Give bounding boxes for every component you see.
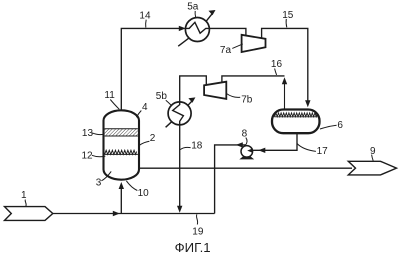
leader tick label 8: [245, 138, 247, 146]
svg-text:16: 16: [271, 59, 283, 70]
arrowhead 5a coolant out: [209, 10, 216, 15]
wire 18 exchanger 5b down to feed line: [179, 125, 181, 207]
leader tick label 7a: [232, 44, 243, 49]
arrowhead feed line right: [113, 211, 120, 216]
arrowhead 16 up: [282, 77, 287, 84]
svg-text:2: 2: [150, 133, 156, 144]
leader tick label 15: [285, 19, 288, 28]
compressor 7a: [242, 35, 266, 52]
column 2 vessel outline: [104, 110, 140, 179]
leader tick label 7b: [227, 94, 241, 98]
svg-text:14: 14: [139, 10, 151, 21]
wire 17 vessel 6 bottom to pump 8: [253, 133, 297, 150]
svg-text:6: 6: [337, 120, 343, 131]
wire product line to arrow 9: [139, 167, 352, 169]
svg-text:13: 13: [82, 128, 94, 139]
svg-text:1: 1: [21, 190, 27, 201]
arrowhead 15 into vessel 6: [305, 100, 310, 107]
vessel 6: [272, 110, 320, 134]
heat exchanger 5b: [166, 101, 193, 128]
leader tick label 19: [196, 214, 197, 224]
leader tick label 1: [25, 200, 26, 207]
arrowhead stream 18 down: [177, 206, 182, 213]
leader tick label 3: [101, 171, 111, 180]
svg-text:7a: 7a: [220, 45, 232, 56]
wire 15 compressor 7a to vessel 6: [262, 28, 308, 101]
svg-text:7b: 7b: [241, 94, 253, 105]
wire feed riser into column bottom: [120, 189, 122, 214]
leader tick label 5b: [166, 100, 172, 105]
svg-text:5a: 5a: [187, 1, 199, 12]
svg-text:17: 17: [317, 146, 329, 157]
leader tick label 14: [145, 20, 148, 28]
compressor 7b: [204, 82, 226, 99]
arrowhead into column bottom: [119, 182, 124, 189]
svg-text:8: 8: [242, 129, 248, 140]
leader tick label 4: [136, 111, 141, 118]
leader tick label 2: [139, 141, 149, 145]
pump 8: [239, 146, 254, 160]
leader tick label 5a: [194, 11, 197, 18]
svg-text:11: 11: [104, 90, 115, 101]
leader tick label 11: [110, 100, 119, 110]
arrowhead pump outlet left: [236, 142, 243, 147]
outlet arrow 9: [348, 161, 396, 175]
leader tick label 9: [372, 155, 374, 161]
arrowhead into 5a: [179, 26, 186, 31]
wire 16 vessel 6 vapor to compressor 7b: [284, 84, 286, 110]
svg-text:18: 18: [191, 141, 203, 152]
inlet arrow 1: [5, 207, 53, 221]
svg-text:ФИГ.1: ФИГ.1: [175, 240, 211, 255]
leader tick label 17: [297, 143, 316, 151]
svg-text:12: 12: [82, 150, 94, 161]
svg-text:5b: 5b: [156, 91, 168, 102]
leader tick label 16: [275, 69, 277, 75]
wire 19 pump outlet recycle: [215, 145, 246, 214]
heat exchanger 5a: [178, 13, 212, 46]
hatched bed 13 in column: [105, 129, 138, 136]
packing 12 sawtooth in column: [105, 150, 138, 154]
wire compressor 7b outlet to exchanger 5b: [180, 76, 207, 102]
svg-text:9: 9: [370, 146, 376, 157]
leader tick label 12: [92, 155, 105, 156]
svg-text:19: 19: [192, 226, 204, 237]
demister sawtooth in vessel 6: [274, 113, 317, 117]
svg-text:10: 10: [138, 188, 150, 199]
leader tick label 13: [92, 133, 104, 135]
wire 14 column top to exchanger 5a: [121, 28, 180, 110]
wire 5a to compressor 7a: [209, 28, 246, 35]
wire feed line from arrow 1: [53, 213, 215, 215]
leader tick label 6: [320, 125, 337, 129]
arrowhead 5b coolant out: [188, 97, 195, 102]
arrowhead 17 into pump: [258, 148, 265, 153]
leader tick label 10: [126, 181, 137, 191]
leader tick label 18: [180, 147, 190, 149]
svg-text:15: 15: [282, 10, 294, 21]
svg-text:4: 4: [142, 102, 148, 113]
svg-text:3: 3: [96, 178, 102, 189]
